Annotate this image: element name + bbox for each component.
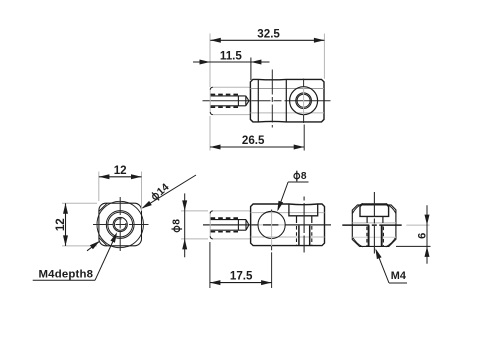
right view: M4 hole dashed major lines bbox=[366, 227, 368, 247]
left view: corner chamfer left-bottom bbox=[99, 238, 107, 246]
top view: thread depth end line bbox=[237, 96, 239, 106]
right view: facet line above centerline bbox=[352, 222, 396, 224]
dim 12 vertical: dimension line bbox=[65, 203, 67, 246]
dim 12 horizontal: extension lines bbox=[98, 172, 100, 202]
left view: M4 thread major circle bbox=[113, 217, 127, 231]
right view: screw shank bbox=[367, 216, 383, 223]
top view: vertical hole centerline bbox=[271, 70, 273, 128]
dim phi8 left: extension lines bbox=[181, 210, 208, 212]
dim 11.5: right extension line bbox=[250, 58, 252, 81]
svg-text:8: 8 bbox=[172, 219, 183, 225]
svg-text:12: 12 bbox=[114, 164, 127, 177]
svg-text:M4: M4 bbox=[391, 270, 406, 282]
svg-text:32.5: 32.5 bbox=[257, 27, 280, 40]
top view: vertical phi8 hole silhouette lines bbox=[257, 80, 259, 122]
dim 26.5: dimension line bbox=[210, 146, 304, 148]
top view: body outline bbox=[250, 79, 324, 122]
right view: vertical centerline bbox=[373, 192, 375, 254]
dim 17.5: extension lines bbox=[209, 242, 211, 288]
svg-text:26.5: 26.5 bbox=[242, 134, 265, 147]
right view: phi14 corner arcs bbox=[386, 237, 396, 247]
top view: M4 tapped hole dashed major lines bbox=[211, 94, 239, 96]
left view: phi14 boss circle bbox=[97, 201, 143, 247]
dim 17.5: dimension line bbox=[210, 282, 272, 284]
dim 6: extension lines bbox=[406, 224, 429, 226]
label phi8 front: phi symbol bbox=[294, 171, 300, 182]
front view: phi8 cross hole circle bbox=[258, 211, 285, 238]
left view: M4 thread minor arc bbox=[114, 219, 126, 231]
dim 6: dimension line, arrows outside bbox=[426, 205, 428, 263]
dim 12 vertical: extension lines bbox=[62, 202, 97, 204]
dim 32.5: extension lines bbox=[209, 34, 211, 88]
right view: M4 hole solid minor lines (thick) bbox=[368, 225, 370, 246]
top view: screw vertical centerline bbox=[303, 79, 305, 88]
svg-text:14: 14 bbox=[155, 181, 172, 198]
label phi8 front: underline and leader bbox=[288, 181, 308, 183]
label M4depth8: underline and leader bbox=[33, 279, 95, 281]
left view: phi8 shaft circle bbox=[106, 211, 134, 239]
svg-text:8: 8 bbox=[301, 171, 307, 182]
svg-text:17.5: 17.5 bbox=[230, 270, 253, 283]
left view: horizontal centerline bbox=[93, 224, 149, 226]
right view: lower facet line bbox=[352, 236, 396, 238]
svg-text:6: 6 bbox=[416, 233, 428, 239]
right view: horizontal centerline bbox=[342, 224, 401, 226]
top view: phi8 shaft silhouette bbox=[210, 87, 251, 114]
top view: clamp screw circles bbox=[290, 87, 318, 115]
dim 12 horizontal: dimension line bbox=[99, 176, 142, 178]
dim phi14: phi symbol and digits oblique bbox=[150, 181, 172, 203]
top view: M4 hole minor solid lines bbox=[211, 95, 246, 97]
front view: tapped hole below, dashed major lines bbox=[296, 226, 298, 245]
front view: main horizontal centerline bbox=[203, 224, 258, 226]
dim 11.5: dimension line bbox=[193, 61, 270, 63]
front view: clamp screw head bbox=[289, 204, 318, 216]
top view: chamfer facet lines bbox=[250, 88, 324, 90]
front view: drill point cone bbox=[246, 220, 249, 231]
right view: screw head bbox=[360, 204, 389, 217]
svg-text:11.5: 11.5 bbox=[220, 49, 242, 62]
front view: tapped hole below, solid minor lines bbox=[298, 226, 300, 246]
dim 32.5: dimension line bbox=[210, 39, 324, 41]
left view: corner chamfer left-top bbox=[99, 203, 107, 211]
svg-text:M4depth8: M4depth8 bbox=[39, 269, 94, 281]
right view: octagon body outline with spot-faced top bbox=[352, 205, 396, 247]
dim phi14: opposite arrow bbox=[87, 242, 99, 251]
front view: screw vertical centerline bbox=[303, 197, 305, 253]
front view: screw shank bbox=[297, 216, 312, 223]
left view: vertical centerline bbox=[119, 197, 121, 252]
top view: main horizontal centerline bbox=[203, 100, 331, 102]
front view: M4 hole minor solid lines bbox=[211, 219, 246, 221]
dim phi14: leader line with arrow bbox=[143, 175, 196, 208]
front view: phi8 shaft silhouette bbox=[210, 211, 251, 239]
dim phi8 left: phi symbol rotated bbox=[172, 219, 183, 232]
left view: shaft chamfer circle bbox=[108, 212, 133, 237]
label M4: leader bbox=[376, 250, 389, 283]
front view: hole vertical centerline bbox=[271, 210, 273, 212]
svg-text:12: 12 bbox=[54, 218, 67, 231]
top view: drill point cone bbox=[246, 96, 249, 106]
dim 26.5: extension lines bbox=[209, 116, 211, 151]
front view: M4 tapped hole dashed major lines bbox=[211, 217, 239, 219]
front view: thread depth end line bbox=[237, 220, 239, 231]
left view: rounded square body outline bbox=[99, 203, 142, 246]
front view: chamfer facet lines bbox=[251, 212, 325, 214]
dim phi8 left: dimension line, arrows outside bbox=[184, 193, 186, 257]
front view: body outline with screw seat dip bbox=[251, 204, 325, 246]
